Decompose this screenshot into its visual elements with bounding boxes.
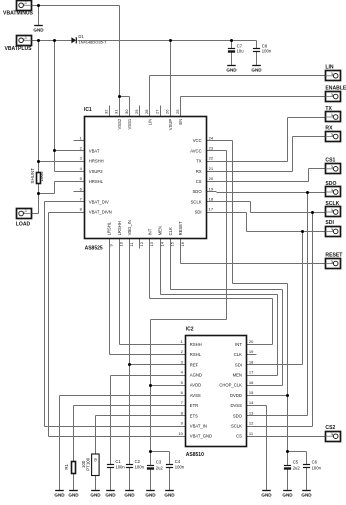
svg-text:1: 1 (331, 259, 333, 263)
svg-text:28: 28 (144, 109, 149, 114)
svg-text:GND: GND (54, 493, 65, 498)
svg-text:VSUP2: VSUP2 (89, 169, 103, 174)
svg-text:C1: C1 (115, 459, 121, 464)
svg-text:12: 12 (249, 421, 254, 426)
svg-text:SDI: SDI (195, 210, 202, 215)
svg-text:AVCC: AVCC (190, 148, 201, 153)
svg-text:RSHL: RSHL (190, 352, 202, 357)
svg-text:AS8510: AS8510 (186, 452, 204, 458)
svg-text:24: 24 (209, 135, 214, 140)
svg-text:13: 13 (149, 241, 154, 246)
svg-text:C5: C5 (293, 460, 299, 465)
svg-text:1: 1 (331, 227, 333, 231)
svg-text:GND: GND (105, 493, 116, 498)
svg-text:CS2: CS2 (325, 425, 335, 431)
svg-text:2u2: 2u2 (156, 465, 164, 470)
svg-text:AVSS: AVSS (190, 393, 201, 398)
svg-text:1: 1 (331, 132, 333, 136)
svg-text:VBAT_DIV: VBAT_DIV (89, 199, 109, 204)
svg-text:25: 25 (175, 109, 180, 114)
svg-text:RX: RX (196, 169, 202, 174)
svg-text:27: 27 (154, 109, 159, 114)
svg-text:RSHH: RSHH (190, 342, 202, 347)
svg-text:IC1: IC1 (84, 107, 92, 113)
svg-text:SCLK: SCLK (325, 201, 339, 207)
svg-text:ENABLE: ENABLE (325, 85, 346, 91)
svg-text:VBATPLUS: VBATPLUS (4, 46, 32, 52)
svg-text:1: 1 (25, 209, 27, 213)
svg-text:SDI: SDI (325, 220, 334, 226)
svg-text:IC2: IC2 (186, 327, 194, 333)
svg-text:LRSHL: LRSHL (107, 221, 112, 235)
svg-text:GND: GND (145, 493, 156, 498)
svg-text:CS1: CS1 (325, 158, 335, 164)
svg-text:16: 16 (249, 380, 254, 385)
svg-text:1: 1 (25, 36, 27, 40)
svg-text:17: 17 (249, 370, 254, 375)
svg-text:EN: EN (178, 119, 183, 125)
svg-text:18: 18 (249, 359, 254, 364)
svg-text:SDI: SDI (235, 362, 242, 367)
svg-text:100n: 100n (312, 465, 322, 470)
svg-text:26: 26 (165, 109, 170, 114)
svg-text:1: 1 (331, 432, 333, 436)
svg-text:15: 15 (249, 390, 254, 395)
svg-text:31: 31 (114, 109, 119, 114)
svg-text:VSS1: VSS1 (127, 118, 132, 129)
svg-text:LRSHH: LRSHH (117, 221, 122, 235)
svg-text:30: 30 (124, 109, 129, 114)
svg-text:GND: GND (261, 493, 272, 498)
svg-text:C4: C4 (175, 459, 181, 464)
svg-text:VBAT_GND: VBAT_GND (190, 434, 212, 439)
svg-text:16: 16 (180, 241, 185, 246)
svg-text:ETS: ETS (190, 413, 198, 418)
svg-text:1N4148DO35-7: 1N4148DO35-7 (78, 40, 107, 45)
svg-text:DVDD: DVDD (230, 393, 242, 398)
svg-text:C3: C3 (156, 460, 162, 465)
svg-text:C6: C6 (312, 460, 318, 465)
svg-text:100u: 100u (39, 171, 44, 182)
svg-text:17: 17 (209, 207, 214, 212)
svg-text:CLK: CLK (168, 227, 173, 235)
svg-text:LOAD: LOAD (16, 222, 31, 228)
svg-text:TX: TX (196, 159, 202, 164)
svg-text:GND: GND (68, 493, 79, 498)
svg-text:20: 20 (249, 339, 254, 344)
svg-text:CHOP_CLK: CHOP_CLK (219, 383, 242, 388)
svg-text:HRSHL: HRSHL (89, 179, 104, 184)
svg-text:REF: REF (190, 362, 199, 367)
svg-text:R1: R1 (64, 463, 69, 469)
svg-text:VBAT_DIVN: VBAT_DIVN (89, 210, 112, 215)
svg-text:CS: CS (236, 434, 242, 439)
svg-text:2u2: 2u2 (293, 465, 301, 470)
svg-text:14: 14 (249, 400, 254, 405)
svg-text:AS8525: AS8525 (85, 246, 103, 252)
svg-text:VCC: VCC (193, 138, 202, 143)
svg-text:GND: GND (124, 493, 135, 498)
svg-text:VSS2: VSS2 (117, 118, 122, 129)
svg-text:32: 32 (103, 109, 108, 114)
svg-text:AVDD: AVDD (190, 383, 201, 388)
svg-text:RESET: RESET (178, 221, 183, 235)
svg-text:VBAT: VBAT (89, 148, 100, 153)
svg-text:GND: GND (226, 68, 237, 73)
svg-text:VSUP: VSUP (168, 119, 173, 131)
svg-text:VBAT_IN: VBAT_IN (190, 424, 207, 429)
svg-text:1: 1 (331, 72, 333, 76)
svg-text:1: 1 (331, 92, 333, 96)
svg-text:AGND: AGND (190, 373, 202, 378)
svg-text:100n: 100n (135, 465, 145, 470)
svg-text:1: 1 (331, 165, 333, 169)
svg-text:14: 14 (159, 241, 164, 246)
svg-text:GND: GND (251, 68, 262, 73)
svg-text:10: 10 (119, 241, 124, 246)
svg-text:GND: GND (282, 493, 293, 498)
svg-text:TX: TX (325, 106, 332, 112)
svg-text:SDO: SDO (193, 189, 203, 194)
svg-text:HRSHH: HRSHH (89, 159, 104, 164)
svg-text:100n: 100n (115, 465, 125, 470)
svg-text:CS: CS (196, 179, 202, 184)
svg-text:1: 1 (331, 188, 333, 192)
svg-text:22: 22 (209, 156, 214, 161)
svg-text:SHUNT: SHUNT (30, 168, 35, 184)
svg-text:ETR: ETR (190, 403, 198, 408)
svg-text:DVSS: DVSS (230, 403, 242, 408)
svg-text:1: 1 (25, 1, 27, 5)
svg-text:21: 21 (209, 166, 214, 171)
svg-text:CLK: CLK (234, 352, 242, 357)
svg-text:15: 15 (170, 241, 175, 246)
svg-text:RX: RX (325, 125, 333, 131)
svg-text:10: 10 (178, 431, 183, 436)
svg-text:19: 19 (209, 186, 214, 191)
svg-text:GND: GND (301, 493, 312, 498)
svg-text:18: 18 (209, 197, 214, 202)
svg-text:100n: 100n (262, 48, 272, 53)
svg-text:D1: D1 (78, 34, 84, 39)
svg-text:LIN: LIN (147, 119, 152, 126)
svg-text:MEN: MEN (158, 226, 163, 235)
svg-text:1: 1 (331, 208, 333, 212)
svg-text:SCLK: SCLK (231, 424, 242, 429)
svg-text:VBG_IN: VBG_IN (127, 220, 132, 235)
svg-text:SDO: SDO (325, 181, 336, 187)
svg-text:GND: GND (164, 493, 175, 498)
svg-text:29: 29 (134, 109, 139, 114)
svg-text:VBATMINUS: VBATMINUS (3, 11, 34, 17)
svg-text:C2: C2 (135, 459, 141, 464)
svg-text:INT: INT (235, 342, 242, 347)
svg-text:SDO: SDO (233, 413, 243, 418)
svg-text:LIN: LIN (325, 65, 334, 71)
svg-text:12: 12 (139, 241, 144, 246)
svg-text:20: 20 (209, 176, 214, 181)
svg-text:PT100: PT100 (86, 457, 91, 470)
svg-text:MEN: MEN (233, 373, 242, 378)
svg-text:SCLK: SCLK (191, 199, 202, 204)
svg-text:13: 13 (249, 410, 254, 415)
svg-text:GND: GND (33, 28, 44, 33)
svg-text:23: 23 (209, 146, 214, 151)
svg-text:GND: GND (90, 493, 101, 498)
svg-text:INT: INT (147, 228, 152, 235)
svg-text:RESET: RESET (325, 252, 343, 258)
svg-text:10u: 10u (237, 48, 245, 53)
svg-text:19: 19 (249, 349, 254, 354)
svg-text:1: 1 (331, 113, 333, 117)
svg-text:100n: 100n (175, 465, 185, 470)
